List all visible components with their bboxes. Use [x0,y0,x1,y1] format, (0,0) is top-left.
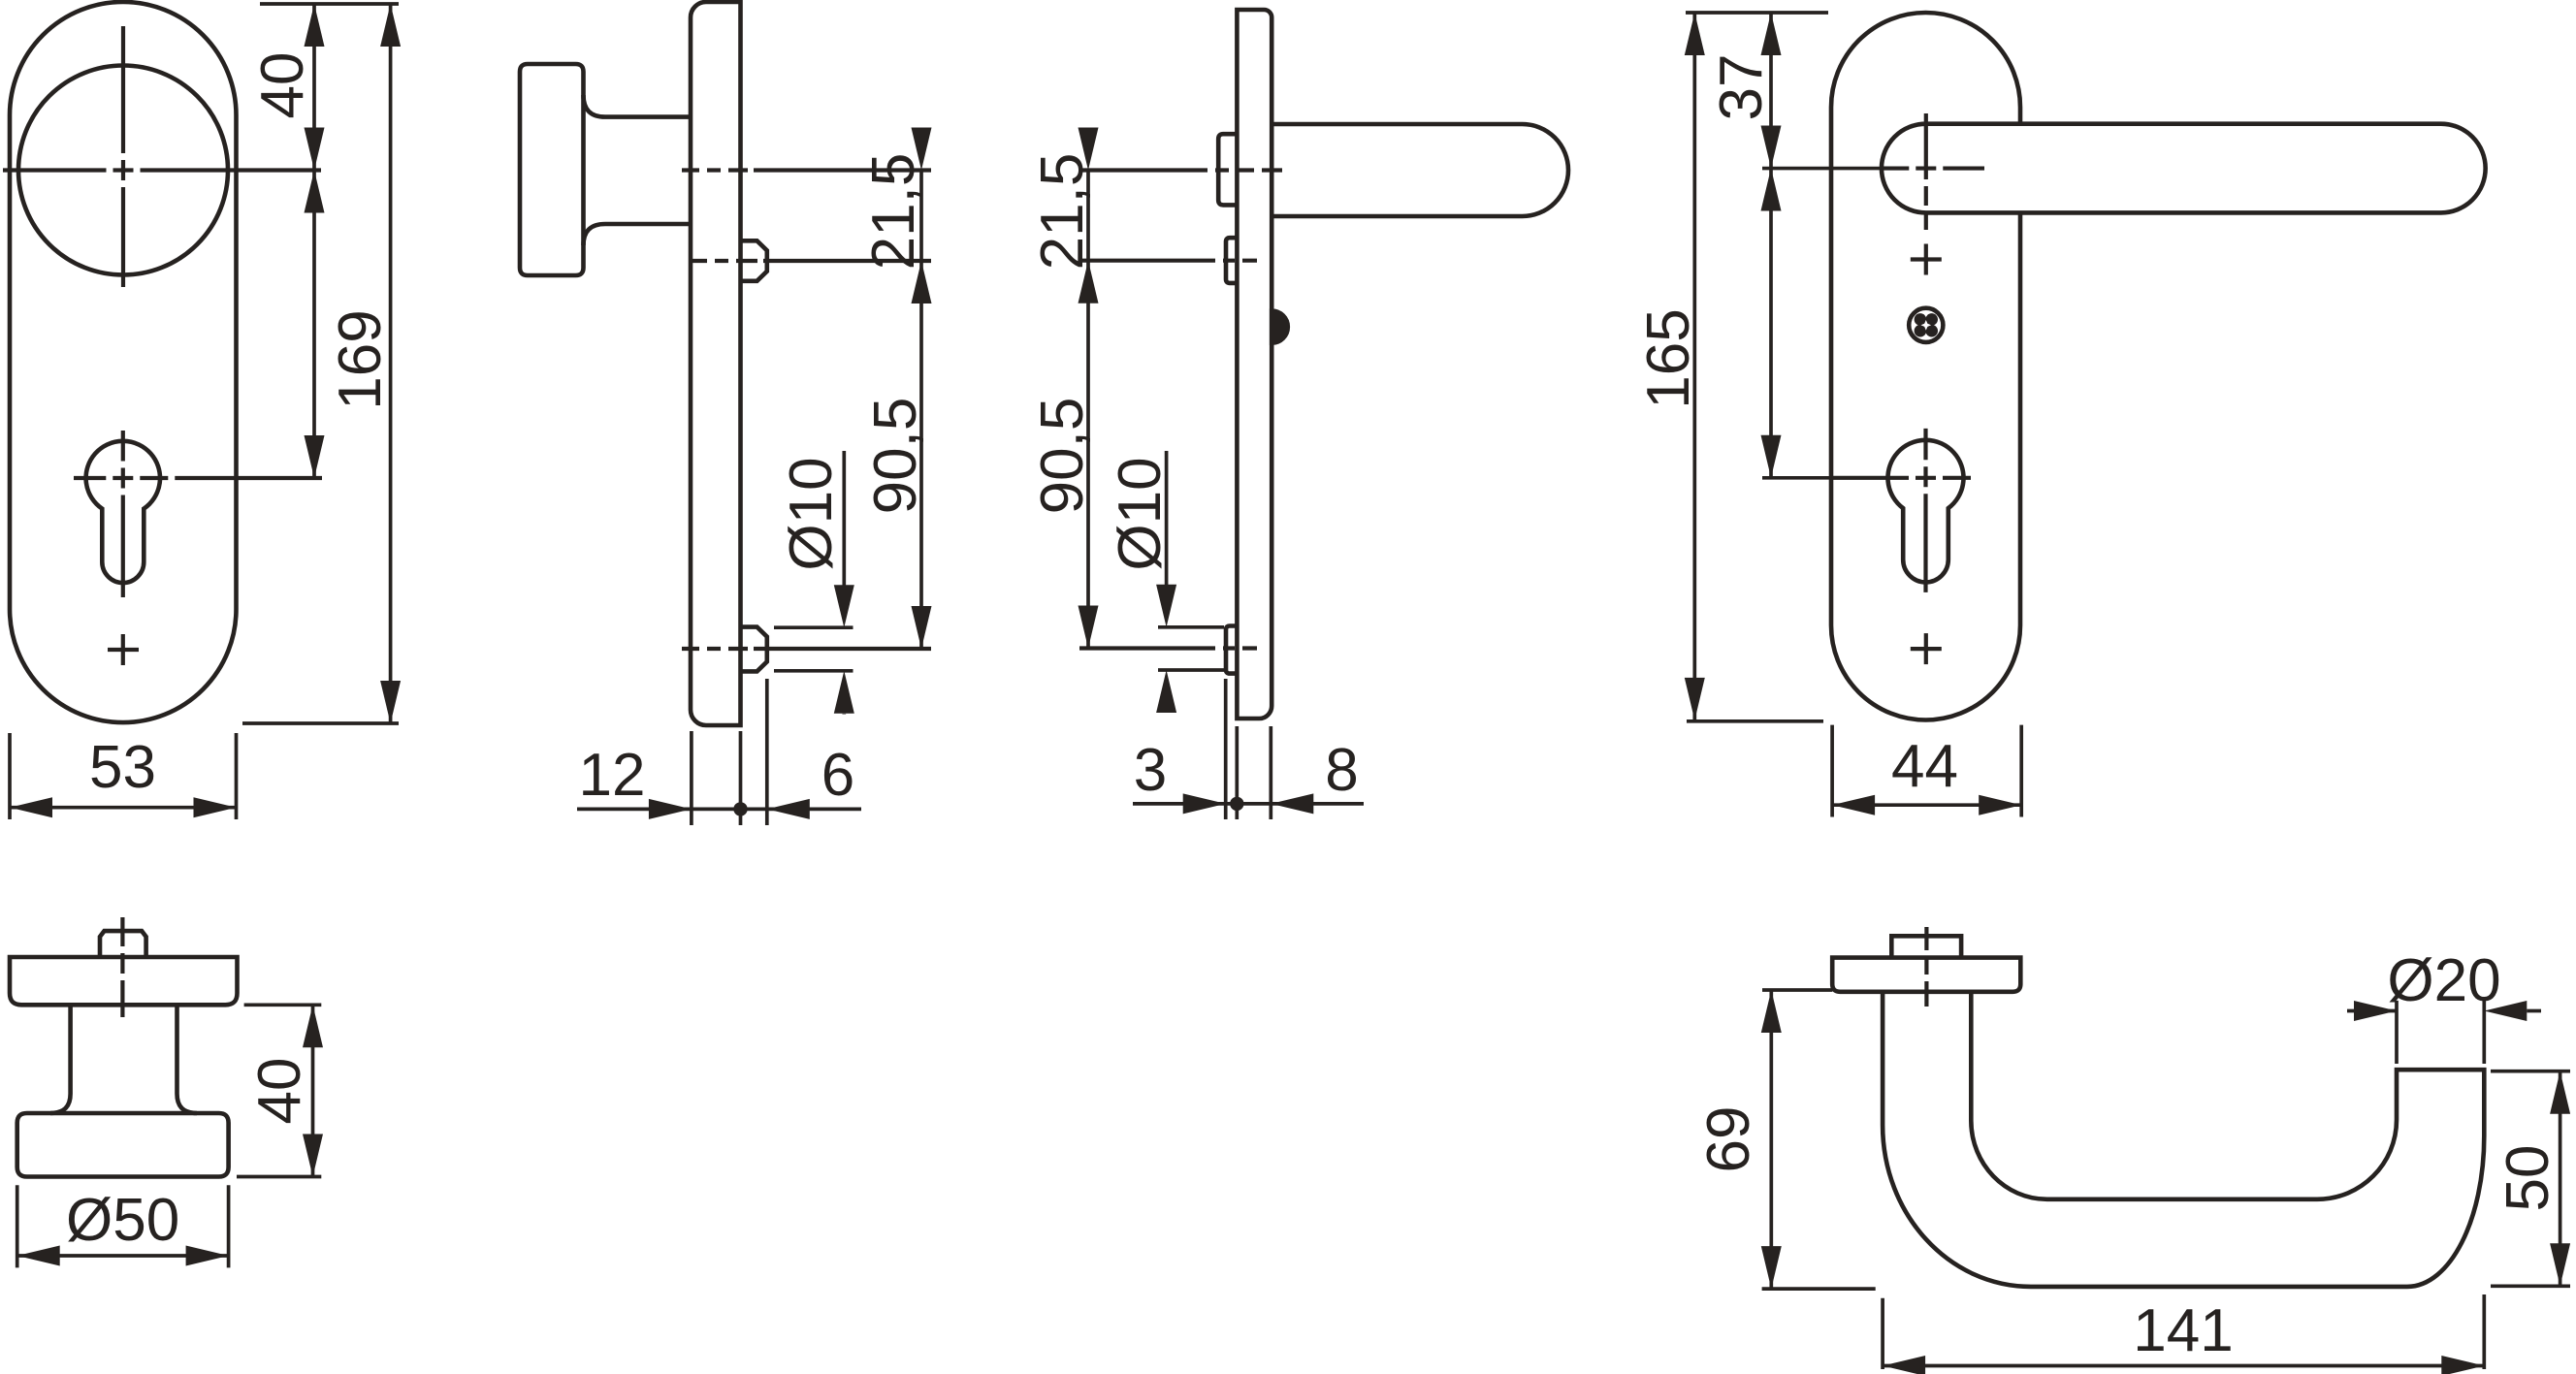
dimension line 44 [1832,803,2021,807]
upper screw boss (back) [741,240,767,280]
O10 extension lines [1158,625,1224,629]
knob rose disc [10,957,238,1005]
dimension line 141 [1883,1364,2484,1368]
lever handle front view [1882,124,2486,213]
bottom extension lines [1224,679,1228,819]
lower screw cross [1911,647,1942,651]
svg-text:141: 141 [2133,1297,2233,1364]
svg-text:90,5: 90,5 [862,398,929,515]
upper screw cross [1911,257,1942,261]
bottom extension line [1687,719,1823,723]
dimension line 40 / centre distance (chained) [312,4,316,478]
PZ vertical centerline [121,431,125,597]
knob vertical centerline [121,26,125,287]
svg-text:Ø10: Ø10 [1107,457,1174,570]
svg-text:44: 44 [1891,733,1958,800]
upper screw centerline [1079,259,1257,263]
lower screw boss (back) [741,627,767,672]
O10 dimension arrows [1165,451,1169,586]
knob neck upper line with fillet [584,95,692,117]
dimension line 53 [10,806,237,810]
bottom extension lines [690,731,693,825]
spindle square [1891,936,1961,957]
svg-text:90,5: 90,5 [1029,398,1096,515]
dimension 50 extension lines [2491,1070,2570,1073]
svg-text:12: 12 [579,742,646,809]
dimension line 21,5 / 90,5 left [1086,171,1090,649]
dimension line 21,5 / 90,5 [919,171,923,650]
dimension line 169 [389,4,393,723]
knob neck left line [50,1005,71,1113]
lever centerline [1079,168,1282,172]
svg-text:50: 50 [2495,1145,2561,1212]
torx screw head bump [1272,311,1288,343]
knob neck lower line with fillet [584,224,692,245]
knob cap side [520,64,584,275]
PZ horizontal centerline [1831,476,1971,480]
torx screw [1909,308,1943,342]
spindle centerline [120,917,124,1017]
top extension line [260,2,399,6]
dimension line 69 [1769,990,1773,1289]
spindle square [100,931,146,957]
knob neck right line [177,1005,198,1113]
dimension line 37 / centre distance (chained) [1769,13,1773,478]
svg-text:Ø50: Ø50 [66,1187,179,1254]
PZ horizontal extension line [1762,476,1831,480]
svg-text:21,5: 21,5 [860,153,927,271]
lever horizontal centerline [1882,166,1984,170]
O10 dimension arrows [842,451,846,586]
svg-text:69: 69 [1695,1106,1762,1173]
PZ cylinder keyhole [1888,440,1964,583]
svg-text:21,5: 21,5 [1029,153,1096,271]
dimension line O50 [17,1254,229,1258]
dimension line 50 [2559,1071,2562,1287]
lever grip side view [1272,124,1568,216]
lever tube U-shape [1883,992,2484,1287]
plate side profile (8mm) [1237,10,1272,719]
svg-text:Ø20: Ø20 [2387,947,2500,1014]
upper screw boss (front) [1226,238,1237,283]
dimension 53 extension lines [8,733,12,819]
plate outline (oval 44x165) [1831,13,2020,720]
PZ cylinder keyhole [86,441,160,583]
knob circle O50 [18,66,228,275]
O10 extension lines [774,625,853,629]
dimension O20 extension lines [2395,1001,2399,1064]
svg-text:165: 165 [1635,308,1702,408]
svg-text:3: 3 [1134,737,1167,804]
spindle centerline [1924,927,1928,1007]
dimension 69 extension lines [1762,988,1832,992]
top extension line [1686,11,1828,15]
dimension 141 extension lines [1881,1298,1884,1369]
PZ horizontal centerline [74,476,322,480]
dimension line 3 and 8 [1133,802,1364,806]
svg-text:169: 169 [327,309,394,409]
lever centre extension line [1762,167,1882,171]
dimension 44 extension lines [1830,725,1834,817]
knob cap [17,1113,229,1177]
svg-text:37: 37 [1708,54,1775,121]
dimension line 12 and 6 [577,808,861,812]
dimension line 165 [1692,13,1696,720]
dimension 40 extension lines [244,1003,322,1007]
dimension line 40 [311,1005,315,1176]
dimension line O20 [2347,1009,2397,1013]
knob centerline to dimension [682,168,931,172]
plate side profile (12mm) [691,2,741,725]
lower screw centerline [1079,646,1257,650]
bottom extension line [242,721,399,725]
svg-text:40: 40 [249,52,316,119]
PZ vertical centerline [1923,429,1927,592]
svg-text:40: 40 [246,1058,313,1125]
upper screw centerline [692,259,931,263]
lower screw boss (front) [1226,626,1237,674]
dimension O50 extension lines [16,1185,19,1267]
svg-text:8: 8 [1325,737,1358,804]
lever rose disc [1832,958,2020,992]
svg-text:53: 53 [89,734,156,801]
plate outline (oval 53x169) [10,2,237,722]
knob horizontal centerline [3,168,321,172]
lower fixing screw cross [108,648,139,652]
svg-text:Ø10: Ø10 [778,457,845,570]
svg-text:6: 6 [821,742,854,809]
lever vertical centerline [1924,113,1928,230]
lower screw centerline [682,647,931,651]
spindle boss [1218,134,1237,205]
